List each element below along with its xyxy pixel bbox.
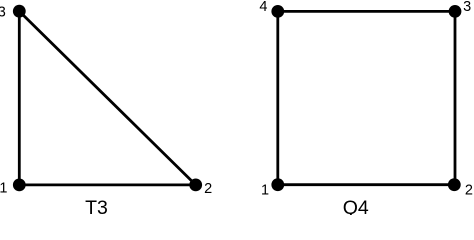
svg-text:Q4: Q4: [343, 197, 369, 215]
svg-text:4: 4: [259, 0, 267, 15]
node 3 of triangle (top-left dot): [13, 5, 26, 18]
node 3 of square (top-right dot): [449, 5, 462, 18]
svg-text:3: 3: [0, 4, 6, 20]
svg-text:T3: T3: [85, 197, 108, 215]
node 1 of triangle (bottom-left dot): [13, 179, 26, 192]
edge 3-1 (left vertical of triangle): [18, 11, 21, 185]
svg-text:2: 2: [204, 181, 212, 197]
node 2 of square (bottom-right dot): [448, 178, 461, 191]
node 4 of square (top-left dot): [271, 5, 284, 18]
svg-text:1: 1: [261, 183, 269, 199]
node 1 of square (bottom-left dot): [271, 178, 284, 191]
edge 3-2 (hypotenuse): [19, 11, 195, 185]
edge 1-2 (bottom of square): [278, 183, 455, 186]
edge 4-3 (top of square): [278, 10, 455, 13]
quadrilateral element Q4: [259, 0, 473, 219]
node 2 of triangle (bottom-right dot): [189, 179, 202, 192]
edge 4-1 (left vertical of square): [276, 11, 279, 184]
triangle element T3: [0, 4, 212, 219]
svg-text:2: 2: [465, 183, 473, 199]
edge 1-2 (bottom of triangle): [19, 183, 195, 186]
svg-text:3: 3: [463, 0, 471, 15]
edge 3-2 (right vertical of square): [454, 11, 457, 184]
svg-text:1: 1: [0, 180, 7, 196]
